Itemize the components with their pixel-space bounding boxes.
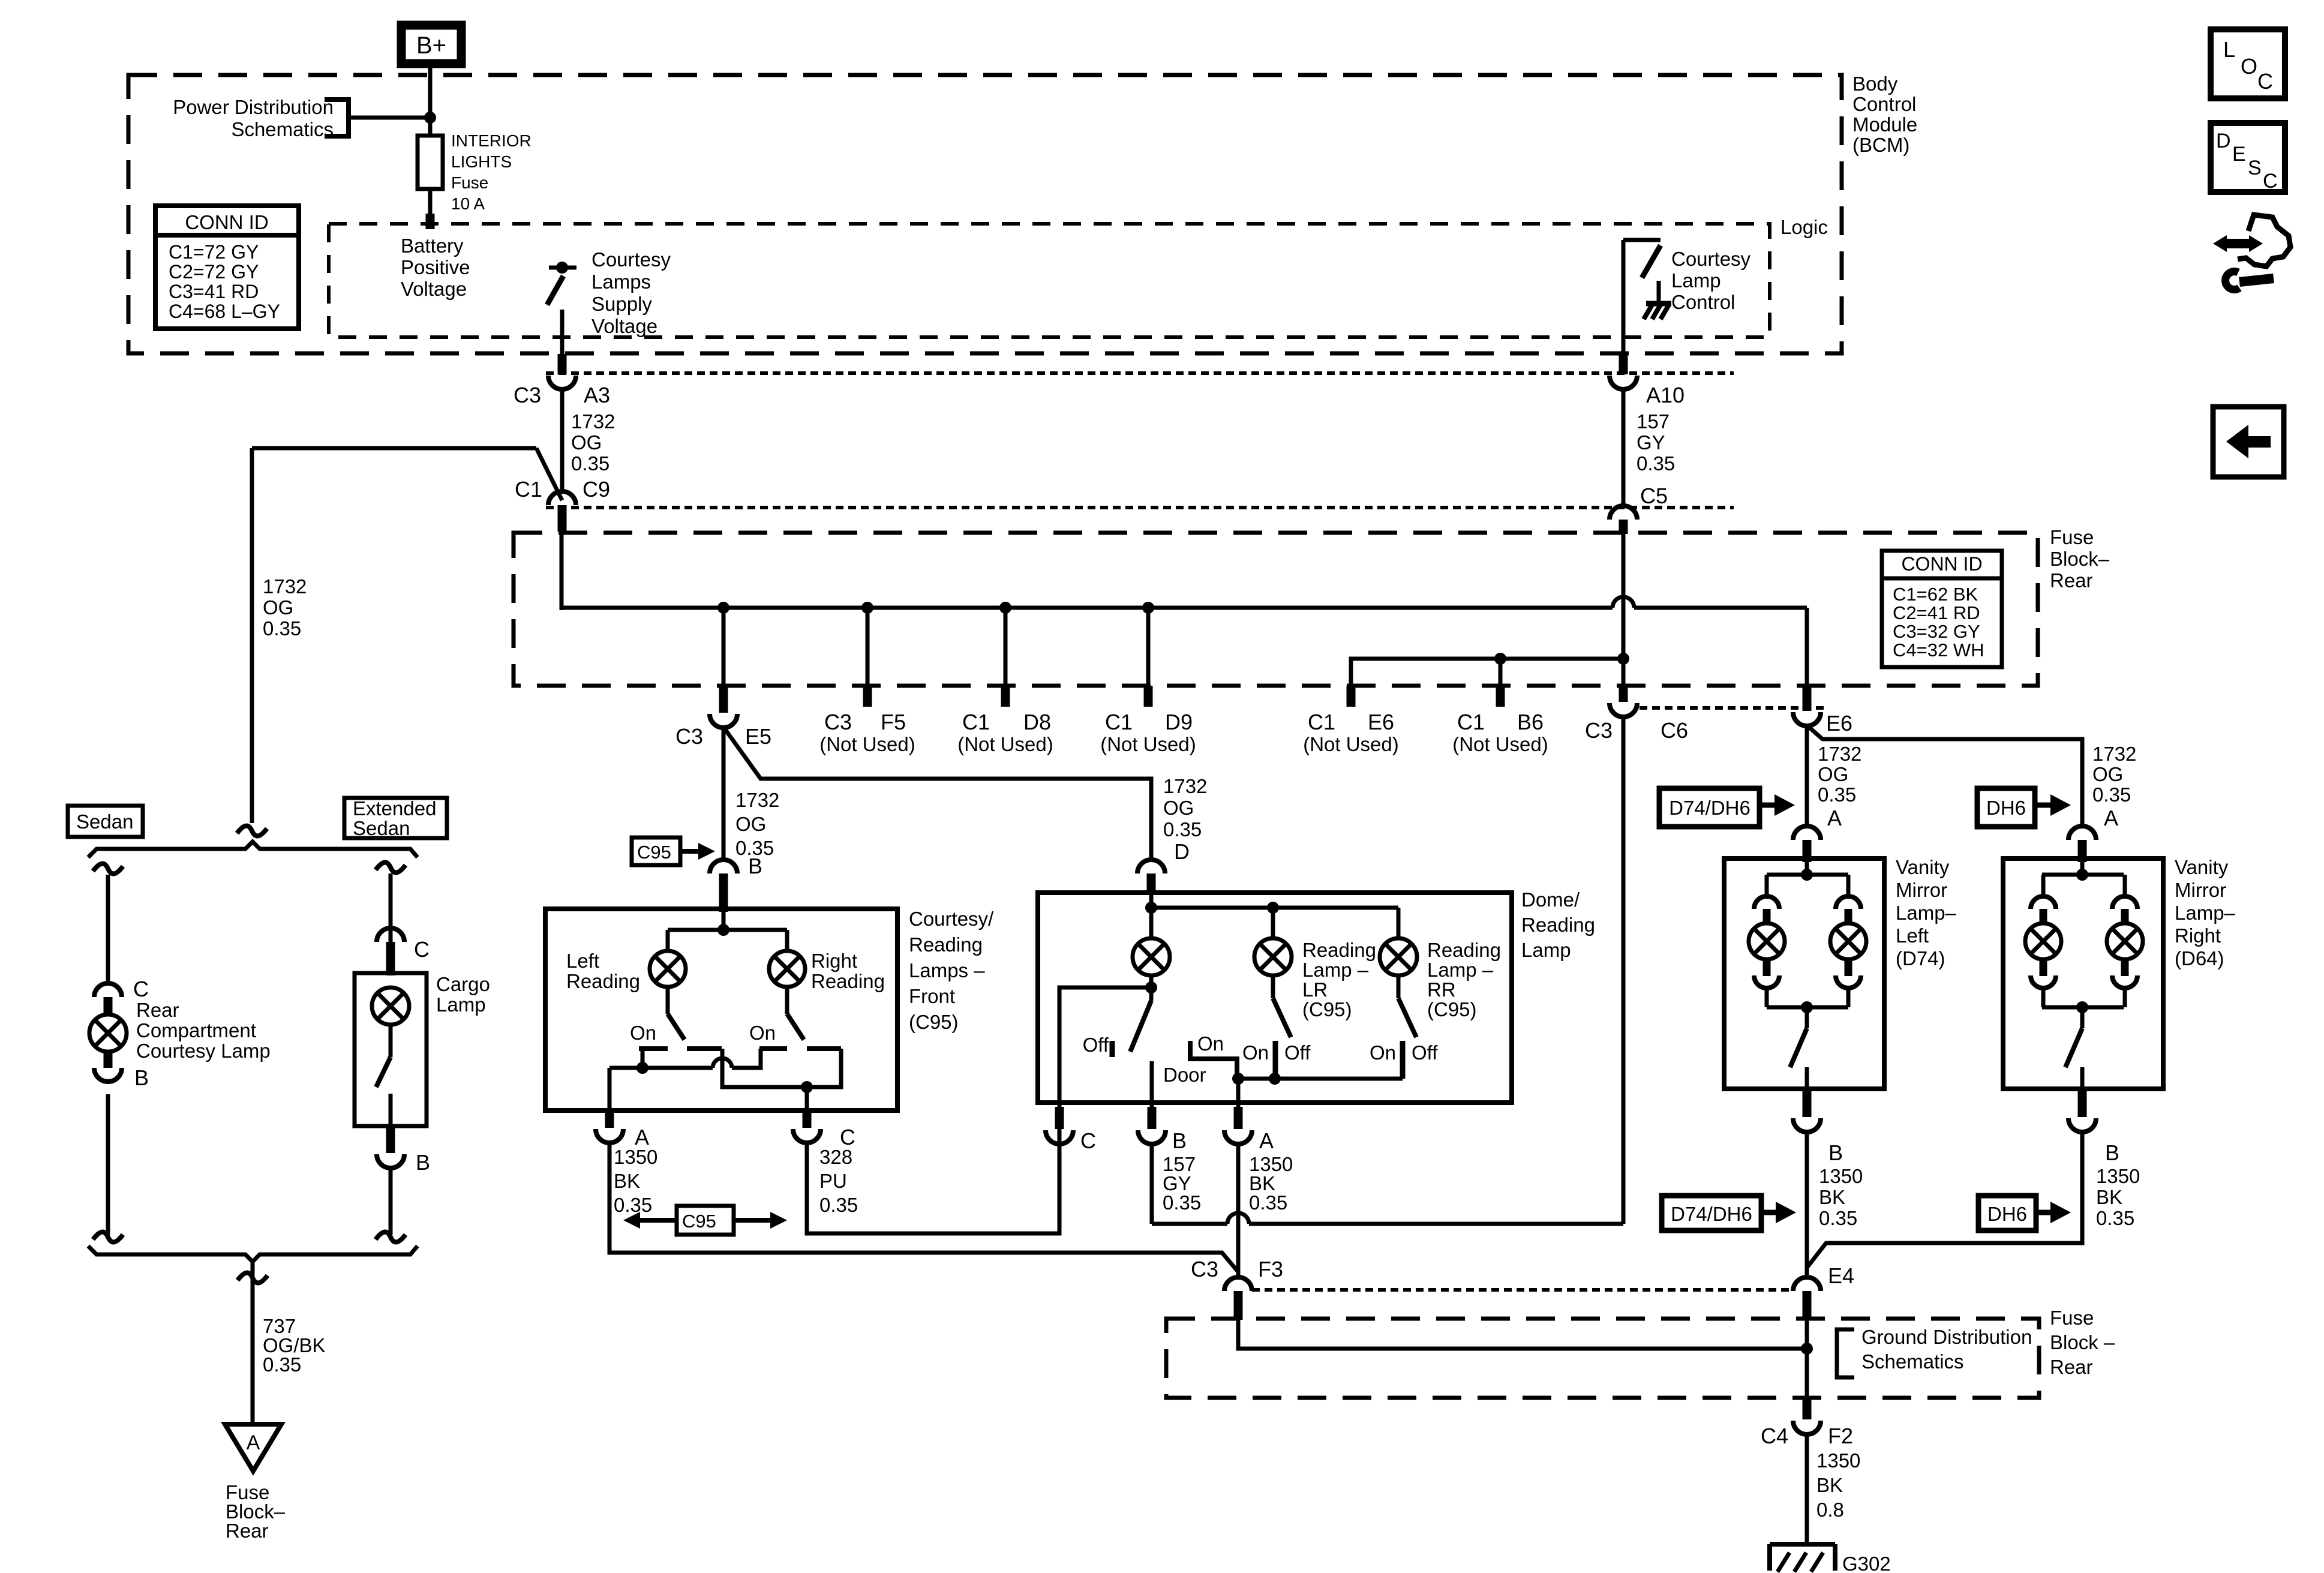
svg-text:(D74): (D74) <box>1896 947 1945 969</box>
wire right vanity bottom bar <box>2042 1005 2124 1010</box>
label Off (RR) <box>1412 1041 1438 1064</box>
wire 1350 BK right vanity to E4 <box>1807 1131 2082 1268</box>
svg-text:C5: C5 <box>1640 484 1668 508</box>
switch right reading On <box>787 1014 804 1040</box>
connector dome lamp terminal A (cup) <box>1224 1130 1252 1144</box>
box option Extended Sedan <box>344 797 447 839</box>
svg-text:OG: OG <box>1818 763 1848 785</box>
icon LOC reference box <box>2211 29 2285 98</box>
connector dome lamp terminal D (dome) <box>1137 860 1165 873</box>
svg-text:Reading: Reading <box>811 970 885 992</box>
svg-text:L: L <box>2223 37 2235 62</box>
label Courtesy Lamp Control <box>1671 248 1751 313</box>
node spur to B6 <box>1494 653 1506 665</box>
label A (right vanity) <box>2104 806 2118 830</box>
connector right bulb top (dome) <box>1836 896 1861 909</box>
break symbol extended branch bottom <box>376 1232 406 1242</box>
label wire 1732 OG 0.35 (A3-C9) <box>571 410 615 475</box>
svg-text:Reading: Reading <box>1302 939 1376 961</box>
pin fuse block C4 terminal F2 <box>1803 1398 1812 1419</box>
pin C9 into fuse block <box>558 505 567 532</box>
lamp left vanity bulb 2 <box>1830 923 1866 959</box>
wire right vanity to switch <box>2080 1007 2085 1028</box>
label wire 1732 OG 0.35 (left branch) <box>263 575 307 640</box>
wire 1732 OG to rear lamps (vertical) <box>250 448 254 823</box>
node front lamps feed split <box>717 924 729 936</box>
label B (front lamps) <box>748 854 762 878</box>
label On (RR) <box>1370 1041 1396 1064</box>
connector dome lamp terminal B (cup) <box>1138 1130 1166 1144</box>
label wire 1350 BK 0.8 <box>1816 1449 1860 1521</box>
label Cargo Lamp <box>436 973 490 1016</box>
pin right bulb bottom <box>1845 959 1852 976</box>
ground G302 <box>1770 1544 1835 1572</box>
svg-text:1732: 1732 <box>263 575 307 598</box>
pin cargo lamp C <box>386 942 395 975</box>
pin F3 into fuse block <box>1234 1291 1243 1320</box>
pin fuse block C1 terminal E6 not used <box>1347 686 1356 707</box>
contact bar left reading switch <box>639 1046 722 1051</box>
svg-text:D: D <box>1174 839 1190 864</box>
svg-text:(Not Used): (Not Used) <box>1303 733 1399 755</box>
svg-text:C1: C1 <box>1457 710 1485 734</box>
pin right bulb top rv <box>2121 909 2129 924</box>
pin right vanity A <box>2078 840 2087 862</box>
box BCM Logic dashed outline <box>329 224 1770 337</box>
svg-text:LR: LR <box>1302 978 1328 1001</box>
svg-text:LIGHTS: LIGHTS <box>451 152 512 171</box>
svg-text:GY: GY <box>1637 431 1665 454</box>
label C3 (left of C6) <box>1585 718 1613 743</box>
wire right bulb to bottom bar <box>1846 988 1851 1007</box>
connector C3 pin A3 (cup) <box>548 376 576 389</box>
connector C1 pin C5 (dome) <box>1610 506 1637 520</box>
svg-text:E: E <box>2232 143 2246 166</box>
box option Sedan <box>68 806 143 837</box>
node bus to E5 <box>717 602 729 614</box>
svg-text:Reading: Reading <box>1521 914 1595 936</box>
connector cargo lamp terminal C (dome) <box>377 928 404 942</box>
lamp right reading <box>769 951 805 987</box>
label wire 328 PU 0.35 (front C) <box>819 1146 858 1216</box>
svg-text:C3: C3 <box>1191 1257 1218 1281</box>
wire C column <box>805 1087 809 1110</box>
label A (dome lamp) <box>1259 1128 1274 1153</box>
wire drop to right reading lamp <box>785 930 789 951</box>
svg-text:B: B <box>416 1150 430 1175</box>
svg-text:DH6: DH6 <box>1986 797 2026 819</box>
connector strip dotted line lower <box>546 506 1734 509</box>
label C9 <box>582 477 610 502</box>
pin front lamps B <box>719 873 728 912</box>
svg-text:Schematics: Schematics <box>1861 1350 1964 1373</box>
hop front ground bus over C column <box>713 1058 732 1068</box>
svg-text:D9: D9 <box>1165 710 1193 734</box>
node right vanity feed split <box>2076 869 2088 881</box>
svg-text:C: C <box>2263 170 2278 193</box>
wire right vanity feed <box>2080 861 2085 876</box>
node dome ground bus LR <box>1269 1073 1281 1085</box>
svg-text:Extended: Extended <box>353 797 436 819</box>
connector cargo lamp terminal B (cup) <box>377 1154 404 1168</box>
wire extended branch upper <box>389 873 393 942</box>
pin dome lamp C <box>1055 1107 1064 1129</box>
svg-text:DH6: DH6 <box>1987 1203 2027 1225</box>
label wire 157 GY 0.35 (A10-C5) <box>1637 410 1675 475</box>
svg-text:Right: Right <box>2175 924 2221 947</box>
svg-text:0.35: 0.35 <box>263 1353 301 1376</box>
box dome/reading lamp <box>1038 893 1512 1103</box>
label C6 <box>1661 718 1688 743</box>
label C1 E6 (Not Used) <box>1303 710 1399 755</box>
connector C4 pin F2 (cup) <box>1793 1421 1821 1434</box>
wire bus corner down to E6 vanity feed <box>1805 608 1809 686</box>
break symbol below bottom brace <box>238 1272 268 1283</box>
wire spur to E6 and B6 <box>1351 659 1622 686</box>
offpage connector A to fuse block rear <box>225 1424 281 1471</box>
connector front lamps terminal C (cup) <box>793 1129 821 1143</box>
connector C1 pin C9 (dome) <box>548 491 576 505</box>
svg-text:Lamps: Lamps <box>591 271 651 293</box>
svg-text:B: B <box>2105 1140 2119 1165</box>
lamp right vanity bulb 2 <box>2107 923 2143 959</box>
lamp cargo lamp <box>372 987 409 1025</box>
svg-text:1350: 1350 <box>2096 1165 2140 1187</box>
label Dome/Reading Lamp <box>1521 888 1595 961</box>
label E6 (vanity feed) <box>1826 711 1852 736</box>
svg-text:Front: Front <box>909 985 955 1007</box>
pin fuse block C1 terminal D8 not used <box>1001 686 1010 707</box>
svg-text:C1=62 BK: C1=62 BK <box>1893 584 1978 605</box>
label Fuse Block-Rear (bottom left) <box>226 1481 286 1542</box>
svg-text:Sedan: Sedan <box>76 810 133 833</box>
wire fuse block bus from C9 <box>560 532 564 608</box>
arrow D74/DH6 reference (left vanity feed) <box>1659 788 1795 827</box>
wire right vanity switch to B <box>2080 1067 2085 1089</box>
wire drop to B6 <box>1499 659 1503 686</box>
svg-text:1732: 1732 <box>1818 743 1861 765</box>
wire left bulb to bottom bar rv <box>2041 988 2046 1007</box>
svg-text:Left: Left <box>1896 924 1929 947</box>
label Courtesy/Reading Lamps - Front (C95) <box>909 908 994 1033</box>
svg-text:On: On <box>630 1022 656 1044</box>
label Courtesy Lamps Supply Voltage <box>591 248 671 337</box>
wire 1732 OG from E5 to front lamps B <box>722 727 726 860</box>
node ground junction <box>1801 1343 1813 1355</box>
svg-text:B+: B+ <box>416 32 446 59</box>
node 157 GY to E6/B6 spur <box>1617 653 1629 665</box>
pin rear compartment lamp B <box>104 1051 113 1068</box>
svg-text:E4: E4 <box>1828 1263 1854 1288</box>
wire drop to dome lamp <box>1149 908 1154 938</box>
label A (front lamps) <box>635 1125 649 1149</box>
wire 157 GY through fuse block <box>1622 534 1626 686</box>
svg-text:E6: E6 <box>1368 710 1394 734</box>
svg-text:0.8: 0.8 <box>1816 1499 1844 1521</box>
lamp right vanity bulb 1 <box>2025 923 2061 959</box>
svg-text:D: D <box>2216 130 2231 152</box>
svg-text:C95: C95 <box>682 1211 716 1232</box>
label C (cargo lamp) <box>414 937 430 962</box>
svg-text:Vanity: Vanity <box>1896 856 1950 878</box>
svg-text:Reading: Reading <box>909 933 983 956</box>
pin dome lamp A <box>1234 1107 1243 1129</box>
pin fuse block C1 terminal D9 not used <box>1144 686 1153 707</box>
svg-text:S: S <box>2248 157 2262 179</box>
label Reading Lamp - RR (C95) <box>1427 939 1501 1020</box>
wire battery feed from B+ to fuse <box>428 68 433 136</box>
lamp reading lamp LR <box>1254 938 1292 975</box>
label B (rear compartment lamp) <box>134 1065 149 1090</box>
svg-text:C2=41 RD: C2=41 RD <box>1893 602 1980 623</box>
svg-text:Courtesy: Courtesy <box>591 248 671 271</box>
lamp dome lamp <box>1133 938 1170 975</box>
label C1 D8 (Not Used) <box>957 710 1053 755</box>
svg-text:(C95): (C95) <box>1302 998 1352 1020</box>
connector right vanity terminal A (dome) <box>2068 826 2096 840</box>
svg-text:Lamps –: Lamps – <box>909 959 985 981</box>
svg-text:Compartment: Compartment <box>136 1019 256 1041</box>
svg-text:C3=41 RD: C3=41 RD <box>169 281 259 302</box>
svg-text:Fuse: Fuse <box>2050 526 2094 548</box>
svg-text:0.35: 0.35 <box>263 617 301 640</box>
label wire 1732 OG 0.35 (E5 to B) <box>735 789 779 859</box>
svg-text:Rear: Rear <box>2050 569 2093 592</box>
svg-text:F5: F5 <box>881 710 906 734</box>
svg-text:PU: PU <box>819 1170 847 1192</box>
wire cargo lamp to switch <box>389 1025 393 1057</box>
connector C4 pin E4 (dome) <box>1793 1277 1821 1291</box>
svg-text:0.35: 0.35 <box>1819 1207 1857 1229</box>
pin left bulb bottom <box>1763 959 1771 976</box>
svg-text:Mirror: Mirror <box>1896 879 1947 901</box>
label On (dome switch) <box>1197 1032 1224 1055</box>
label On (LR) <box>1242 1041 1269 1064</box>
wire drop left bulb (right vanity) <box>2041 875 2046 896</box>
lamp left vanity bulb 1 <box>1749 923 1785 959</box>
arrow DH6 reference (right vanity feed) <box>1977 788 2071 827</box>
pin dome lamp D <box>1147 873 1156 895</box>
switch cargo lamp door switch <box>376 1057 391 1087</box>
label Door <box>1163 1064 1206 1086</box>
svg-text:Courtesy/: Courtesy/ <box>909 908 994 930</box>
label A10 <box>1646 383 1685 407</box>
wire 1350 BK front A to F3 node <box>609 1142 1238 1272</box>
svg-text:Lamp: Lamp <box>1671 269 1721 292</box>
svg-text:0.35: 0.35 <box>571 452 609 475</box>
switch left vanity lamp <box>1790 1028 1807 1067</box>
connector strip dotted line right of C6 <box>1640 706 1826 710</box>
svg-text:F3: F3 <box>1258 1257 1283 1281</box>
connector C3 pin C6 (cup) <box>1610 703 1637 717</box>
wire 1350 BK left vanity to E4 <box>1805 1131 1809 1278</box>
wire 1350 BK dome A to F3 <box>1236 1143 1241 1278</box>
fuse INTERIOR LIGHTS 10A <box>418 136 443 217</box>
svg-text:Schematics: Schematics <box>231 118 334 140</box>
label C3 F5 (Not Used) <box>819 710 915 755</box>
svg-text:Lamp: Lamp <box>436 993 486 1016</box>
label C1 B6 (Not Used) <box>1452 710 1548 755</box>
svg-text:C: C <box>1080 1128 1096 1153</box>
label On (right reading) <box>749 1022 776 1044</box>
pin front lamps C <box>803 1110 812 1128</box>
wire A column <box>608 1068 612 1110</box>
svg-text:On: On <box>1370 1041 1396 1064</box>
svg-text:A3: A3 <box>584 383 610 407</box>
svg-text:OG: OG <box>735 813 766 835</box>
svg-text:BK: BK <box>1819 1186 1845 1208</box>
svg-text:C9: C9 <box>582 477 610 502</box>
svg-text:Right: Right <box>811 950 857 972</box>
pin fuse block C3 terminal E6 (vanity feed) <box>1803 686 1812 711</box>
wire right contact column to C bus <box>722 1049 841 1087</box>
arrow C95 reference (front lamps feed) <box>632 837 715 865</box>
pin E4 into fuse block <box>1803 1291 1812 1320</box>
connector right vanity terminal B (cup) <box>2068 1118 2096 1132</box>
svg-text:1350: 1350 <box>1816 1449 1860 1472</box>
connector left bulb top rv (dome) <box>2031 896 2056 909</box>
label wire 1732 OG 0.35 (left vanity) <box>1818 743 1861 806</box>
label Ground Distribution Schematics <box>1861 1326 2032 1373</box>
label B (left vanity) <box>1828 1140 1843 1165</box>
svg-text:A: A <box>2104 806 2118 830</box>
svg-text:D74/DH6: D74/DH6 <box>1671 1203 1752 1225</box>
svg-text:Vanity: Vanity <box>2175 856 2229 878</box>
bracket ground distribution reference <box>1837 1329 1854 1377</box>
svg-text:0.35: 0.35 <box>1818 784 1856 806</box>
svg-text:Fuse: Fuse <box>451 173 488 192</box>
pin fuse output into BCM logic <box>426 214 435 229</box>
wire 328 PU front C to dome lamp C <box>807 1142 1059 1233</box>
label C5 <box>1640 484 1668 508</box>
svg-text:Module: Module <box>1852 113 1917 136</box>
pin left bulb top rv <box>2040 909 2047 924</box>
wire dome ground bus <box>1238 1077 1403 1081</box>
svg-text:CONN ID: CONN ID <box>1901 553 1982 575</box>
wire branch 1732 OG to sedan lamps (horizontal) <box>252 446 536 451</box>
svg-text:C3: C3 <box>1585 718 1613 743</box>
wire 1732 OG from E5 to dome lamp D <box>723 727 1151 860</box>
svg-text:OG: OG <box>1163 797 1194 819</box>
svg-text:B: B <box>134 1065 149 1090</box>
lamp left reading <box>650 951 686 987</box>
node left vanity feed split <box>1801 869 1813 881</box>
svg-text:C: C <box>2257 69 2273 94</box>
svg-text:1732: 1732 <box>735 789 779 811</box>
svg-text:(Not Used): (Not Used) <box>1100 733 1196 755</box>
wire left reading lamp to switch <box>666 987 670 1014</box>
connector C3 pin F3 (dome) <box>1224 1277 1252 1291</box>
wire fuse block internal bus <box>562 606 1613 610</box>
wire 157 GY riser from C6 <box>1622 716 1626 1224</box>
lamp reading lamp RR <box>1380 938 1417 975</box>
label Reading Lamp - LR (C95) <box>1302 939 1376 1020</box>
wire 1732 OG E6 to left vanity A <box>1805 725 1809 828</box>
label C1 D9 (Not Used) <box>1100 710 1196 755</box>
wire cargo switch to B <box>389 1094 393 1126</box>
svg-text:C1: C1 <box>1308 710 1335 734</box>
label C (rear compartment lamp) <box>133 977 149 1001</box>
hop 157 GY over 1350 BK <box>1227 1213 1249 1224</box>
pin BCM C3 terminal A10 <box>1619 354 1628 374</box>
svg-text:0.35: 0.35 <box>2092 784 2131 806</box>
hop bus over 157 GY wire <box>1613 597 1634 608</box>
svg-text:On: On <box>1197 1032 1224 1055</box>
wire drop right bulb (left vanity) <box>1846 875 1851 896</box>
break symbol top of option brace <box>237 825 267 836</box>
connector front lamps terminal A (cup) <box>596 1129 623 1143</box>
wire extended branch lower <box>389 1167 393 1235</box>
node C bus junction <box>801 1081 813 1093</box>
wire left vanity top bar <box>1767 873 1848 877</box>
lamp rear compartment courtesy lamp <box>89 1014 127 1052</box>
pin front lamps A <box>605 1110 614 1128</box>
switch left reading On <box>668 1014 684 1040</box>
label E4 <box>1828 1263 1854 1288</box>
svg-text:C2=72 GY: C2=72 GY <box>169 261 259 283</box>
svg-text:B: B <box>1172 1128 1187 1153</box>
wire RR lamp to switch <box>1397 975 1401 998</box>
svg-text:Mirror: Mirror <box>2175 879 2226 901</box>
svg-text:OG: OG <box>2092 763 2123 785</box>
connector strip dotted line upper <box>546 371 1734 375</box>
switch reading lamp LR <box>1273 998 1291 1037</box>
svg-text:Courtesy Lamp: Courtesy Lamp <box>136 1040 271 1062</box>
break symbol sedan branch bottom <box>93 1232 123 1242</box>
contact Off bar LR <box>1273 1041 1278 1079</box>
svg-text:C95: C95 <box>637 842 671 863</box>
svg-text:B: B <box>748 854 762 878</box>
svg-text:157: 157 <box>1637 410 1670 433</box>
label Vanity Mirror Lamp-Right (D64) <box>2175 856 2236 969</box>
pin left vanity B <box>1803 1089 1812 1117</box>
break symbol sedan branch top <box>93 863 123 873</box>
pin cargo lamp B <box>386 1126 395 1153</box>
break symbol extended branch top <box>376 862 406 872</box>
svg-text:Reading: Reading <box>566 970 640 992</box>
wire left vanity feed <box>1805 861 1809 876</box>
svg-text:Supply: Supply <box>591 293 652 315</box>
contact Off bar RR <box>1400 1041 1406 1079</box>
icon back-arrow box <box>2213 407 2284 477</box>
label C (front lamps) <box>840 1125 855 1149</box>
connector right bulb bottom rv (cup) <box>2112 975 2137 988</box>
svg-text:BK: BK <box>2096 1186 2122 1208</box>
svg-text:D74/DH6: D74/DH6 <box>1669 797 1750 819</box>
connector left vanity terminal B (cup) <box>1793 1118 1821 1132</box>
pin left vanity A <box>1803 840 1812 862</box>
label Vanity Mirror Lamp-Left (D74) <box>1896 856 1957 969</box>
box Fuse Block-Rear (ground) dashed outline <box>1166 1319 2039 1398</box>
svg-text:(Not Used): (Not Used) <box>819 733 915 755</box>
svg-text:0.35: 0.35 <box>819 1194 858 1216</box>
label wire 1350 BK 0.35 (front A) <box>614 1146 657 1216</box>
connector C3 pin A10 (cup) <box>1610 376 1637 389</box>
svg-text:D8: D8 <box>1023 710 1051 734</box>
svg-text:C4: C4 <box>1761 1424 1788 1448</box>
svg-text:OG: OG <box>571 431 602 454</box>
svg-text:Rear: Rear <box>226 1520 269 1542</box>
wire tap to power distribution schematics <box>349 116 428 120</box>
wire 1732 OG E6 to right vanity A <box>1807 725 2082 828</box>
svg-text:Battery: Battery <box>401 235 464 257</box>
svg-text:Sedan: Sedan <box>353 817 410 839</box>
svg-text:INTERIOR: INTERIOR <box>451 131 532 150</box>
svg-text:Body: Body <box>1852 73 1898 95</box>
label E5 <box>745 724 771 749</box>
connector strip dotted line lower row <box>1252 1288 1792 1292</box>
connector rear compartment courtesy lamp terminal B (cup) <box>94 1068 122 1082</box>
